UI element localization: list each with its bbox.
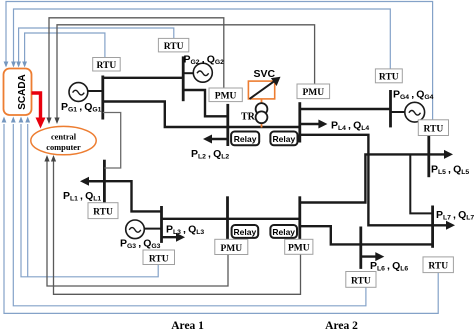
relay box R2 [270, 132, 297, 146]
svg-text:RTU: RTU [149, 254, 169, 264]
RTU box at bus3 [143, 250, 175, 265]
svg-text:PMU: PMU [302, 88, 324, 98]
wire line B5 to B7 [410, 154, 432, 213]
RTU box at load L1 [88, 203, 118, 219]
wire line B2 to load bus L2 [183, 90, 228, 116]
RTU box at bus6 [346, 272, 376, 288]
wire gray central-PMU3 bottom loop [47, 158, 228, 286]
wire line to B6 B7 [300, 226, 433, 244]
svg-text:SCADA: SCADA [17, 74, 28, 110]
arrowhead PL4 right [318, 120, 327, 129]
relay box R4 [270, 225, 297, 238]
relay box R1 [231, 132, 259, 146]
bus B7 [431, 206, 434, 248]
svg-text:Relay: Relay [272, 227, 295, 237]
svg-text:RTU: RTU [351, 276, 371, 286]
arrowhead PL6 right [375, 252, 384, 261]
svg-text:PL5 , QL5: PL5 , QL5 [431, 164, 469, 176]
wire blue SCADA-RTU6 bottom loop [13, 124, 366, 306]
SCADA box [4, 69, 32, 116]
wire line to B4 [300, 108, 391, 110]
svg-text:Relay: Relay [234, 134, 257, 144]
RTU box at bus5 [418, 120, 448, 136]
load arrowheads [80, 120, 455, 262]
red command arrow SCADA to central computer [32, 93, 46, 129]
relay box R3 [232, 225, 259, 238]
wire line to PL7 arrow [300, 135, 448, 226]
svg-text:RTU: RTU [379, 73, 399, 83]
svg-text:TR: TR [241, 112, 256, 123]
svg-text:PMU: PMU [220, 244, 242, 254]
RTU box at bus7 [423, 257, 453, 273]
wire load L1 line to B3 [87, 181, 162, 211]
svg-text:PL6 , QL6: PL6 , QL6 [370, 260, 408, 272]
svg-text:Relay: Relay [234, 227, 257, 237]
wire blue SCADA branch junction [27, 124, 29, 277]
wire line to PL5 arrow [300, 154, 446, 202]
wire gray central-PMU1 top loop [49, 18, 224, 121]
svg-text:Area 2: Area 2 [325, 320, 358, 332]
arrowhead PL5 right [444, 150, 453, 159]
RTU box at G4 [375, 69, 402, 83]
wire gray central-PMU2 top loop [57, 25, 315, 121]
svg-text:PL4 , QL4: PL4 , QL4 [331, 120, 369, 132]
svg-text:PG4 , QG4: PG4 , QG4 [393, 89, 434, 101]
generator G4 [405, 102, 425, 122]
wire blue SCADA-RTU7 bottom loop [4, 124, 438, 313]
RTU box at G1 [93, 58, 121, 72]
arrowhead PL3 right [176, 233, 185, 242]
wire load arrow PL6 [361, 255, 378, 257]
wire G1 stub [88, 90, 103, 92]
RTU box at G2 [158, 38, 188, 52]
bus B3 (G3) [160, 206, 163, 243]
wire G2 stub [183, 72, 193, 74]
svg-text:central: central [51, 133, 77, 142]
svg-text:PG3 , QG3: PG3 , QG3 [120, 238, 161, 250]
svg-text:RTU: RTU [97, 61, 117, 71]
arrowhead PL2 left [203, 135, 212, 144]
svg-text:PL7 , QL7': PL7 , QL7' [436, 209, 474, 221]
bus B1 (G1) [101, 76, 104, 120]
svg-text:PL2 , QL2: PL2 , QL2 [191, 148, 229, 160]
central computer ellipse [31, 126, 96, 154]
svg-text:Area 1: Area 1 [171, 320, 204, 332]
wire gray central-PMU4 bottom loop [54, 158, 301, 294]
gray arrowheads into central computer [44, 118, 59, 162]
wire blue SCADA-RTU5 top loop [6, 2, 433, 120]
PMU box 2 [297, 84, 330, 99]
wire blue SCADA-RTUG4 top loop [14, 9, 391, 69]
svg-text:PMU: PMU [215, 92, 237, 102]
wire line B1 to tie line [103, 102, 300, 128]
bus B5 [427, 136, 430, 178]
generator G1 [69, 83, 88, 102]
svg-text:PL1 , QL1: PL1 , QL1 [63, 190, 101, 202]
bus B4R node [298, 102, 301, 142]
generator G2 [193, 63, 212, 82]
PMU box 3 [215, 239, 248, 254]
svg-text:RTU: RTU [428, 262, 448, 272]
svg-text:SVC: SVC [254, 68, 276, 80]
wire load arrow PL3 [162, 236, 179, 238]
bus B4 (G4) [389, 90, 392, 127]
bus L1 [103, 160, 106, 203]
wire blue SCADA-RTU3 [21, 124, 158, 277]
svg-text:Relay: Relay [273, 134, 296, 144]
transformer TR [256, 99, 268, 128]
svg-text:RTU: RTU [424, 125, 444, 135]
wire blue SCADA-RTU1 [25, 33, 105, 66]
svg-text:PG2 , QG2: PG2 , QG2 [184, 54, 225, 66]
svg-text:PG1 , QG1: PG1 , QG1 [61, 101, 102, 113]
wire load arrow PL4 [300, 123, 321, 125]
wire G4 stub [391, 111, 405, 113]
wire bus1 to busL1 thin link [103, 113, 121, 169]
svg-text:computer: computer [46, 143, 81, 152]
wire load arrow PL1 line [87, 180, 104, 182]
PMU box 4 [285, 239, 313, 254]
bus B6 [359, 227, 362, 269]
bus B2 (G2) [182, 56, 185, 101]
wire line B3 to relay bus [162, 218, 300, 220]
svg-text:RTU: RTU [164, 42, 184, 52]
svg-text:RTU: RTU [93, 208, 113, 218]
wire load arrow PL2 [210, 138, 228, 140]
bus L2 [226, 104, 229, 146]
arrowhead PL1 left [80, 177, 89, 186]
generator G3 [126, 220, 145, 239]
bus L3 PMU node [226, 196, 229, 239]
PMU comm net: gray lines to central computer [47, 18, 315, 295]
blue arrowheads into SCADA [2, 62, 31, 123]
wire line B1-B2 [102, 77, 184, 79]
bus B3R node [298, 196, 301, 239]
wire G3 stub [144, 228, 161, 230]
wire blue SCADA-RTU2 [19, 28, 174, 66]
power network black wires [87, 56, 448, 269]
svg-text:PL3 , QL3: PL3 , QL3 [166, 224, 204, 236]
PMU box 1 [209, 88, 242, 102]
svg-text:PMU: PMU [288, 244, 310, 254]
arrowhead PL7 right [446, 221, 455, 230]
SVC unit [248, 77, 280, 99]
